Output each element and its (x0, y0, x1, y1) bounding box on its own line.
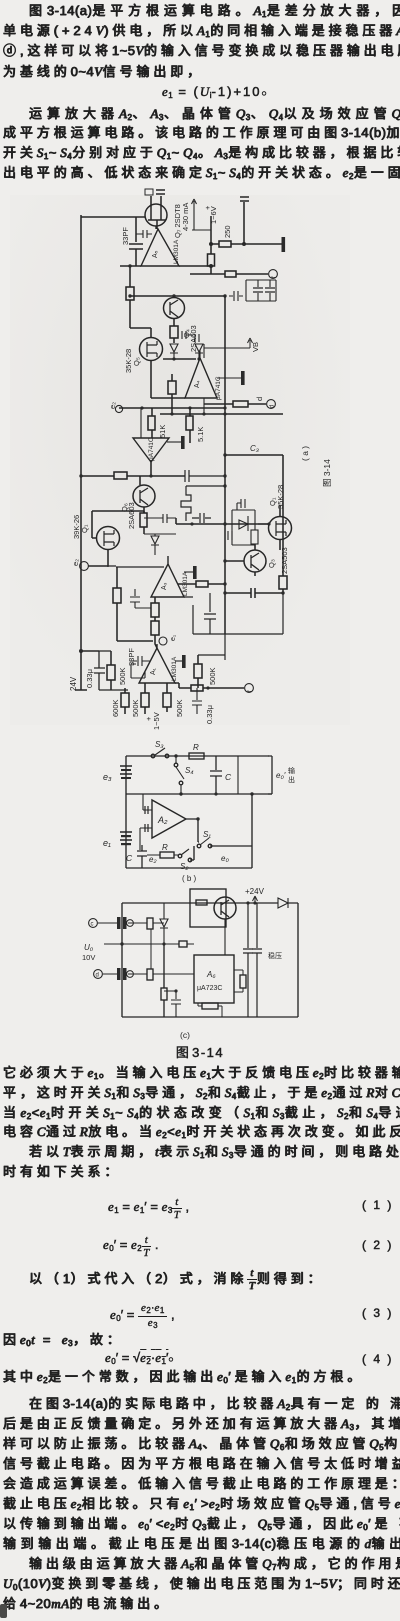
op-amp A1 (139, 644, 175, 683)
svg-text:d: d (255, 397, 264, 401)
twin caps block (246, 280, 276, 301)
svg-text:S₁: S₁ (203, 830, 211, 839)
resistor 5.1K (189, 408, 191, 443)
svg-text:S₄: S₄ (185, 766, 194, 775)
battery e3 (120, 766, 132, 778)
A2 ground (167, 441, 181, 443)
collector leads Q7 (151, 196, 161, 207)
frame wires top/bottom/left (126, 756, 269, 868)
cutoff diode (160, 903, 168, 944)
caption fig 3-14 (0, 1042, 400, 1061)
op-amp A3 (151, 556, 184, 597)
Q6 emitter resistor (143, 507, 145, 534)
supply arrow 1~6V (192, 199, 212, 230)
svg-text:C: C (225, 772, 232, 782)
diode below Q4 (170, 344, 178, 359)
svg-text:e₀: e₀ (221, 854, 229, 863)
cap pair near Q1 (192, 513, 211, 523)
resistor below-left (163, 944, 165, 1017)
cap pair right of Q6 (144, 514, 176, 523)
gate box wire Q5 (130, 328, 151, 337)
svg-text:24V: 24V (69, 676, 78, 691)
svg-text:S₂: S₂ (180, 862, 188, 871)
svg-text:U₀: U₀ (84, 943, 94, 952)
A2 output down (150, 462, 152, 476)
paragraph 3 (3, 1066, 400, 1084)
A5 output wire (120, 265, 211, 267)
right bus (224, 296, 226, 455)
circuit figure 3-14 (b) (0, 740, 400, 886)
svg-text:1~5V: 1~5V (152, 712, 161, 730)
cutoff rail to A3 (108, 566, 164, 567)
output resistor and terminal f (190, 273, 268, 275)
output label (268, 951, 282, 960)
FET Q1 (97, 527, 120, 550)
terminal node (115, 405, 122, 412)
svg-text:R: R (162, 843, 168, 852)
svg-text:VB: VB (251, 342, 260, 352)
diode x199 (195, 344, 203, 359)
column x117 down (116, 567, 118, 641)
text between formulas (29, 1268, 324, 1292)
A3 ground (184, 571, 193, 573)
1~5V arrow (144, 712, 161, 730)
svg-text:500K: 500K (131, 699, 140, 717)
svg-text:500K: 500K (175, 699, 184, 717)
Q1 gate box (92, 511, 144, 538)
A2 output node (186, 819, 252, 860)
series cap on rail (185, 470, 225, 482)
svg-text:e₁: e₁ (103, 838, 111, 848)
filter caps (243, 903, 253, 1017)
svg-text:Q₅: Q₅ (132, 357, 141, 366)
24V supply label (69, 676, 78, 691)
link to Q2 (258, 523, 269, 525)
cap 0.33u left (94, 651, 128, 690)
C3 rail (225, 454, 283, 456)
op-amp A5 (141, 226, 179, 266)
switch S2 (178, 854, 182, 858)
svg-text:( a ): ( a ) (300, 446, 310, 461)
svg-text:e₀′: e₀′ (276, 771, 286, 780)
caption (a) (300, 446, 310, 461)
svg-text:c: c (91, 922, 94, 928)
series transistor box (190, 889, 226, 927)
paragraph 1 (29, 4, 400, 22)
svg-text:e₂: e₂ (71, 559, 80, 566)
svg-text:R: R (193, 743, 199, 752)
paragraph 2 (29, 107, 400, 125)
caption fig3-14 vertical (322, 459, 332, 487)
svg-text:2SA603: 2SA603 (127, 502, 136, 529)
rail y593 with cap (225, 588, 283, 598)
svg-text:A₄: A₄ (194, 380, 201, 388)
svg-text:A₃: A₃ (161, 582, 168, 590)
svg-text:图 3-14: 图 3-14 (322, 459, 332, 487)
left resistor A4 (171, 374, 173, 414)
capacitor 33PF (129, 217, 143, 266)
svg-text:μA741C: μA741C (148, 437, 155, 461)
FET Q2 (269, 517, 292, 540)
U0 10V input (82, 943, 95, 962)
resistor 51K (151, 408, 153, 438)
svg-text:稳压: 稳压 (268, 951, 282, 960)
svg-text:10V: 10V (82, 953, 95, 962)
pass transistor (214, 897, 236, 919)
output rail to terminal (175, 683, 244, 688)
svg-text:C: C (126, 853, 133, 863)
caption (b) (182, 874, 197, 883)
A3 output resistor (178, 583, 225, 585)
hysteresis zigzag resistor (181, 486, 225, 521)
resistor to terminal d (204, 403, 266, 405)
A1 ground (175, 660, 182, 662)
formula (2) (103, 1235, 159, 1259)
capacitor C top (210, 756, 222, 794)
svg-text:0.33μ: 0.33μ (205, 705, 214, 724)
svg-text:Q₁: Q₁ (80, 524, 89, 533)
left vertical (121, 903, 123, 1017)
regulator A6 (194, 955, 234, 1003)
loop box A1 (131, 664, 145, 678)
op-amp A4 (185, 358, 217, 398)
svg-text:C₃: C₃ (250, 444, 259, 453)
resistor R bottom (160, 852, 174, 858)
resistor below A6 (202, 1003, 218, 1009)
formula (3) (110, 1303, 175, 1332)
svg-text:33PF: 33PF (121, 227, 130, 245)
battery e1 (121, 835, 131, 837)
svg-text:d: d (270, 405, 276, 408)
svg-text:4-30 mA: 4-30 mA (181, 203, 190, 231)
cap 0.33u right (192, 688, 202, 714)
resistor right column (240, 197, 249, 244)
svg-text:0.33μ: 0.33μ (85, 669, 94, 688)
svg-text:(c): (c) (180, 1030, 190, 1040)
cap 33PF at A1 (130, 656, 150, 666)
formula (4) (105, 1350, 174, 1366)
svg-text:33PF: 33PF (127, 648, 136, 666)
left resistor 500K column (110, 651, 112, 690)
node e (159, 637, 167, 645)
caption (c) (180, 1030, 190, 1040)
svg-text:600K: 600K (111, 699, 120, 717)
rail into A1 (117, 640, 153, 642)
600K resistor (124, 688, 126, 714)
svg-text:输: 输 (288, 766, 295, 775)
resistors below A1 (144, 683, 146, 714)
svg-text:A₂: A₂ (157, 815, 168, 825)
caps right of Q4 (182, 331, 199, 342)
op-amp A2 (152, 800, 186, 838)
svg-text:A₅: A₅ (152, 250, 159, 258)
svg-text:μA741C: μA741C (215, 376, 222, 400)
resistor on left column (129, 266, 131, 328)
svg-text:LM301A: LM301A (171, 656, 178, 681)
terminal c (89, 919, 98, 928)
wire under diodes (163, 358, 196, 360)
input leads (140, 794, 152, 828)
cap bottom (164, 991, 181, 1017)
circuit figure 3-14 (c) (0, 886, 400, 1042)
svg-text:250: 250 (223, 225, 232, 238)
bottom rail (122, 1016, 298, 1018)
divider resistors below A3 (155, 597, 157, 648)
500K resistor right (197, 655, 199, 688)
VB arrow (204, 338, 253, 348)
caps left of A3 (130, 589, 151, 608)
supply column (210, 216, 212, 274)
mid rail (126, 793, 272, 795)
right bus lower (225, 455, 283, 634)
A4 apex bus (200, 344, 204, 414)
mid rail y296 (130, 295, 225, 297)
resistor right of A6 (240, 975, 246, 988)
top terminal marks (145, 189, 153, 195)
transistor Q7 (145, 204, 167, 226)
svg-text:μA723C: μA723C (197, 985, 222, 992)
cap at top of right bus (229, 291, 243, 301)
bus x225 tail (198, 634, 225, 660)
svg-text:d: d (96, 973, 99, 979)
base wire (81, 216, 145, 218)
svg-text:e₂: e₂ (108, 402, 117, 409)
right vertical (297, 903, 299, 1017)
rail y476 with resistor (81, 475, 185, 477)
right vertical (251, 794, 253, 868)
svg-text:e₃: e₃ (103, 772, 112, 782)
A4 ground (217, 377, 241, 379)
transistor Q3 (244, 550, 266, 572)
svg-text:LM301A: LM301A (173, 239, 180, 264)
terminal e2 c (80, 562, 89, 571)
top rail (122, 902, 298, 904)
cap above diode block (237, 499, 245, 510)
loop box bottom (184, 593, 283, 634)
op-amp A2 comparator (133, 438, 169, 462)
rectifier diode (278, 898, 288, 908)
paragraph 5 (29, 1557, 400, 1575)
transistor Q4 (164, 298, 185, 319)
formula (1) (108, 1197, 189, 1221)
svg-text:S₃: S₃ (155, 740, 164, 749)
switch S3 (151, 754, 155, 758)
svg-text:e₂: e₂ (149, 855, 157, 864)
svg-text:+24V: +24V (245, 887, 265, 896)
svg-text:2SA503: 2SA503 (280, 547, 289, 574)
long rail y524 (176, 523, 269, 525)
transistor Q6 (139, 476, 141, 485)
output port (237, 756, 239, 794)
Q3 collector resistor (279, 576, 287, 589)
bus y414 (160, 413, 283, 415)
capacitor C bottom (137, 845, 147, 868)
feedback cap at A5 (136, 230, 152, 238)
Q5 to A4 input (151, 361, 185, 398)
terminal d (94, 970, 103, 979)
svg-text:( b ): ( b ) (182, 874, 197, 883)
paragraph 4 (29, 1397, 400, 1415)
transistor emitter lead (224, 919, 226, 955)
svg-text:51K: 51K (158, 425, 167, 438)
wire and diode (144, 534, 176, 555)
diode block feeding Q2 (232, 510, 255, 545)
svg-text:e₁: e₁ (170, 634, 177, 641)
Q4 emitter resistor (173, 318, 175, 343)
svg-text:A₁: A₁ (150, 667, 157, 675)
svg-text:Q₃: Q₃ (267, 559, 276, 568)
comparator input rail y408 (119, 407, 225, 409)
svg-text:+: + (144, 716, 153, 721)
formula e1 (162, 84, 269, 100)
svg-text:出: 出 (288, 775, 295, 784)
switch S4 vertical (174, 763, 178, 767)
switch S1 (197, 844, 201, 848)
left power bus (80, 215, 82, 690)
resistor R top (189, 753, 204, 759)
resistor 250 (211, 243, 282, 245)
svg-text:500K: 500K (118, 667, 127, 685)
FET Q5 (140, 338, 163, 361)
svg-text:A₆: A₆ (206, 970, 216, 979)
+24V supply (245, 887, 265, 896)
vertical x176 (175, 518, 177, 524)
svg-text:5.1K: 5.1K (196, 427, 205, 442)
Q7 label (173, 203, 190, 238)
circuit figure 3-14 (a) (0, 188, 400, 735)
svg-text:500K: 500K (208, 667, 217, 685)
text (3, 1333, 124, 1351)
